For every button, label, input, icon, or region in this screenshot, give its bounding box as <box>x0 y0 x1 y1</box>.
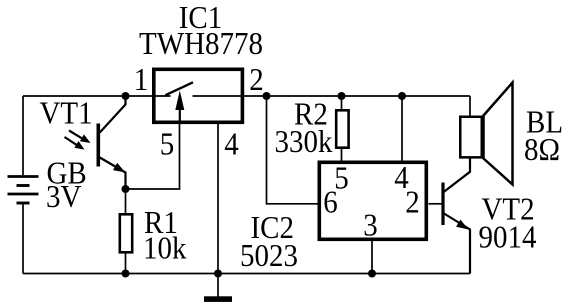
wire top right rail (IC1 pin2 to speaker corner) <box>193 95 471 97</box>
wire IC2 pin4 lead <box>401 96 403 161</box>
svg-text:9014: 9014 <box>479 219 537 254</box>
battery GB long plate 1 <box>8 175 39 178</box>
wire IC1 pin4 down to ground node <box>217 124 219 297</box>
wire left vertical lower (battery bottom lead) <box>22 204 24 274</box>
wire left vertical upper (battery top lead) <box>22 96 24 175</box>
svg-text:1: 1 <box>134 62 148 97</box>
transistor VT1 base bar <box>97 124 101 167</box>
wire speaker top lead <box>469 96 471 116</box>
wire R1 top lead <box>125 189 127 214</box>
svg-text:5023: 5023 <box>240 238 298 273</box>
svg-text:4: 4 <box>224 126 238 161</box>
battery GB short plate 1 <box>17 184 30 187</box>
wire R2 bottom lead (IC2 pin5) <box>341 148 343 162</box>
battery GB long plate 2 <box>8 193 39 196</box>
node pin2 junction dot <box>263 92 271 100</box>
junction dot pin3 node <box>368 270 376 278</box>
resistor R1 body <box>120 214 132 252</box>
wire IC2 pin3 down <box>371 241 373 274</box>
resistor R2 body <box>336 110 348 147</box>
svg-text:10k: 10k <box>143 230 187 265</box>
transistor VT2 base bar <box>441 183 444 226</box>
wire R2 top lead <box>341 96 343 111</box>
op-amp U2 IC2 box <box>319 162 426 239</box>
svg-text:330k: 330k <box>275 124 334 159</box>
svg-text:3: 3 <box>363 207 377 242</box>
junction dot IC2 pin4 top <box>398 92 406 100</box>
loudspeaker BL horn <box>484 83 513 185</box>
wire pin2 node down to IC2 pin6 <box>267 96 319 204</box>
node B junction dot (VT1 emitter / R1 / IC1 pin5) <box>122 185 130 193</box>
battery GB short plate 2 <box>17 202 30 205</box>
svg-text:8Ω: 8Ω <box>524 132 560 167</box>
light arrow 2 into VT1 <box>65 137 79 146</box>
wire IC1 pin5 to node B <box>126 124 180 190</box>
IC1 control arrowhead <box>175 91 184 111</box>
wire bottom rail <box>23 273 470 275</box>
loudspeaker BL driver box <box>460 117 482 158</box>
junction dot R1 bottom <box>122 270 130 278</box>
svg-text:5: 5 <box>160 126 174 161</box>
svg-text:TWH8778: TWH8778 <box>139 26 263 61</box>
transistor VT1 emitter arrowhead <box>113 163 126 173</box>
svg-text:2: 2 <box>405 184 419 219</box>
transistor VT2 emitter wire <box>444 214 470 274</box>
transistor VT2 collector wire <box>444 158 470 192</box>
svg-text:2: 2 <box>249 62 263 97</box>
wire IC2 pin2 to VT2 base <box>429 203 444 205</box>
ground symbol <box>204 296 232 302</box>
wire top left rail <box>23 95 171 97</box>
node A junction dot (VT1 collector / top rail) <box>122 92 130 100</box>
junction dot R2 top <box>338 92 346 100</box>
svg-text:3V: 3V <box>46 179 82 214</box>
svg-text:VT1: VT1 <box>40 95 93 130</box>
wire R1 bottom lead <box>125 253 127 274</box>
light arrow 1 into VT1 <box>69 131 84 140</box>
transistor VT1 emitter wire <box>100 158 126 190</box>
op-amp U1 IC1 box <box>154 69 243 122</box>
transistor VT1 collector wire <box>100 96 126 133</box>
svg-text:6: 6 <box>323 184 337 219</box>
IC1 control arrow shaft (pin 5) <box>179 109 181 124</box>
IC1 switch blade <box>165 82 193 95</box>
junction dot ground node <box>214 270 222 278</box>
transistor VT2 emitter arrowhead <box>456 220 468 230</box>
